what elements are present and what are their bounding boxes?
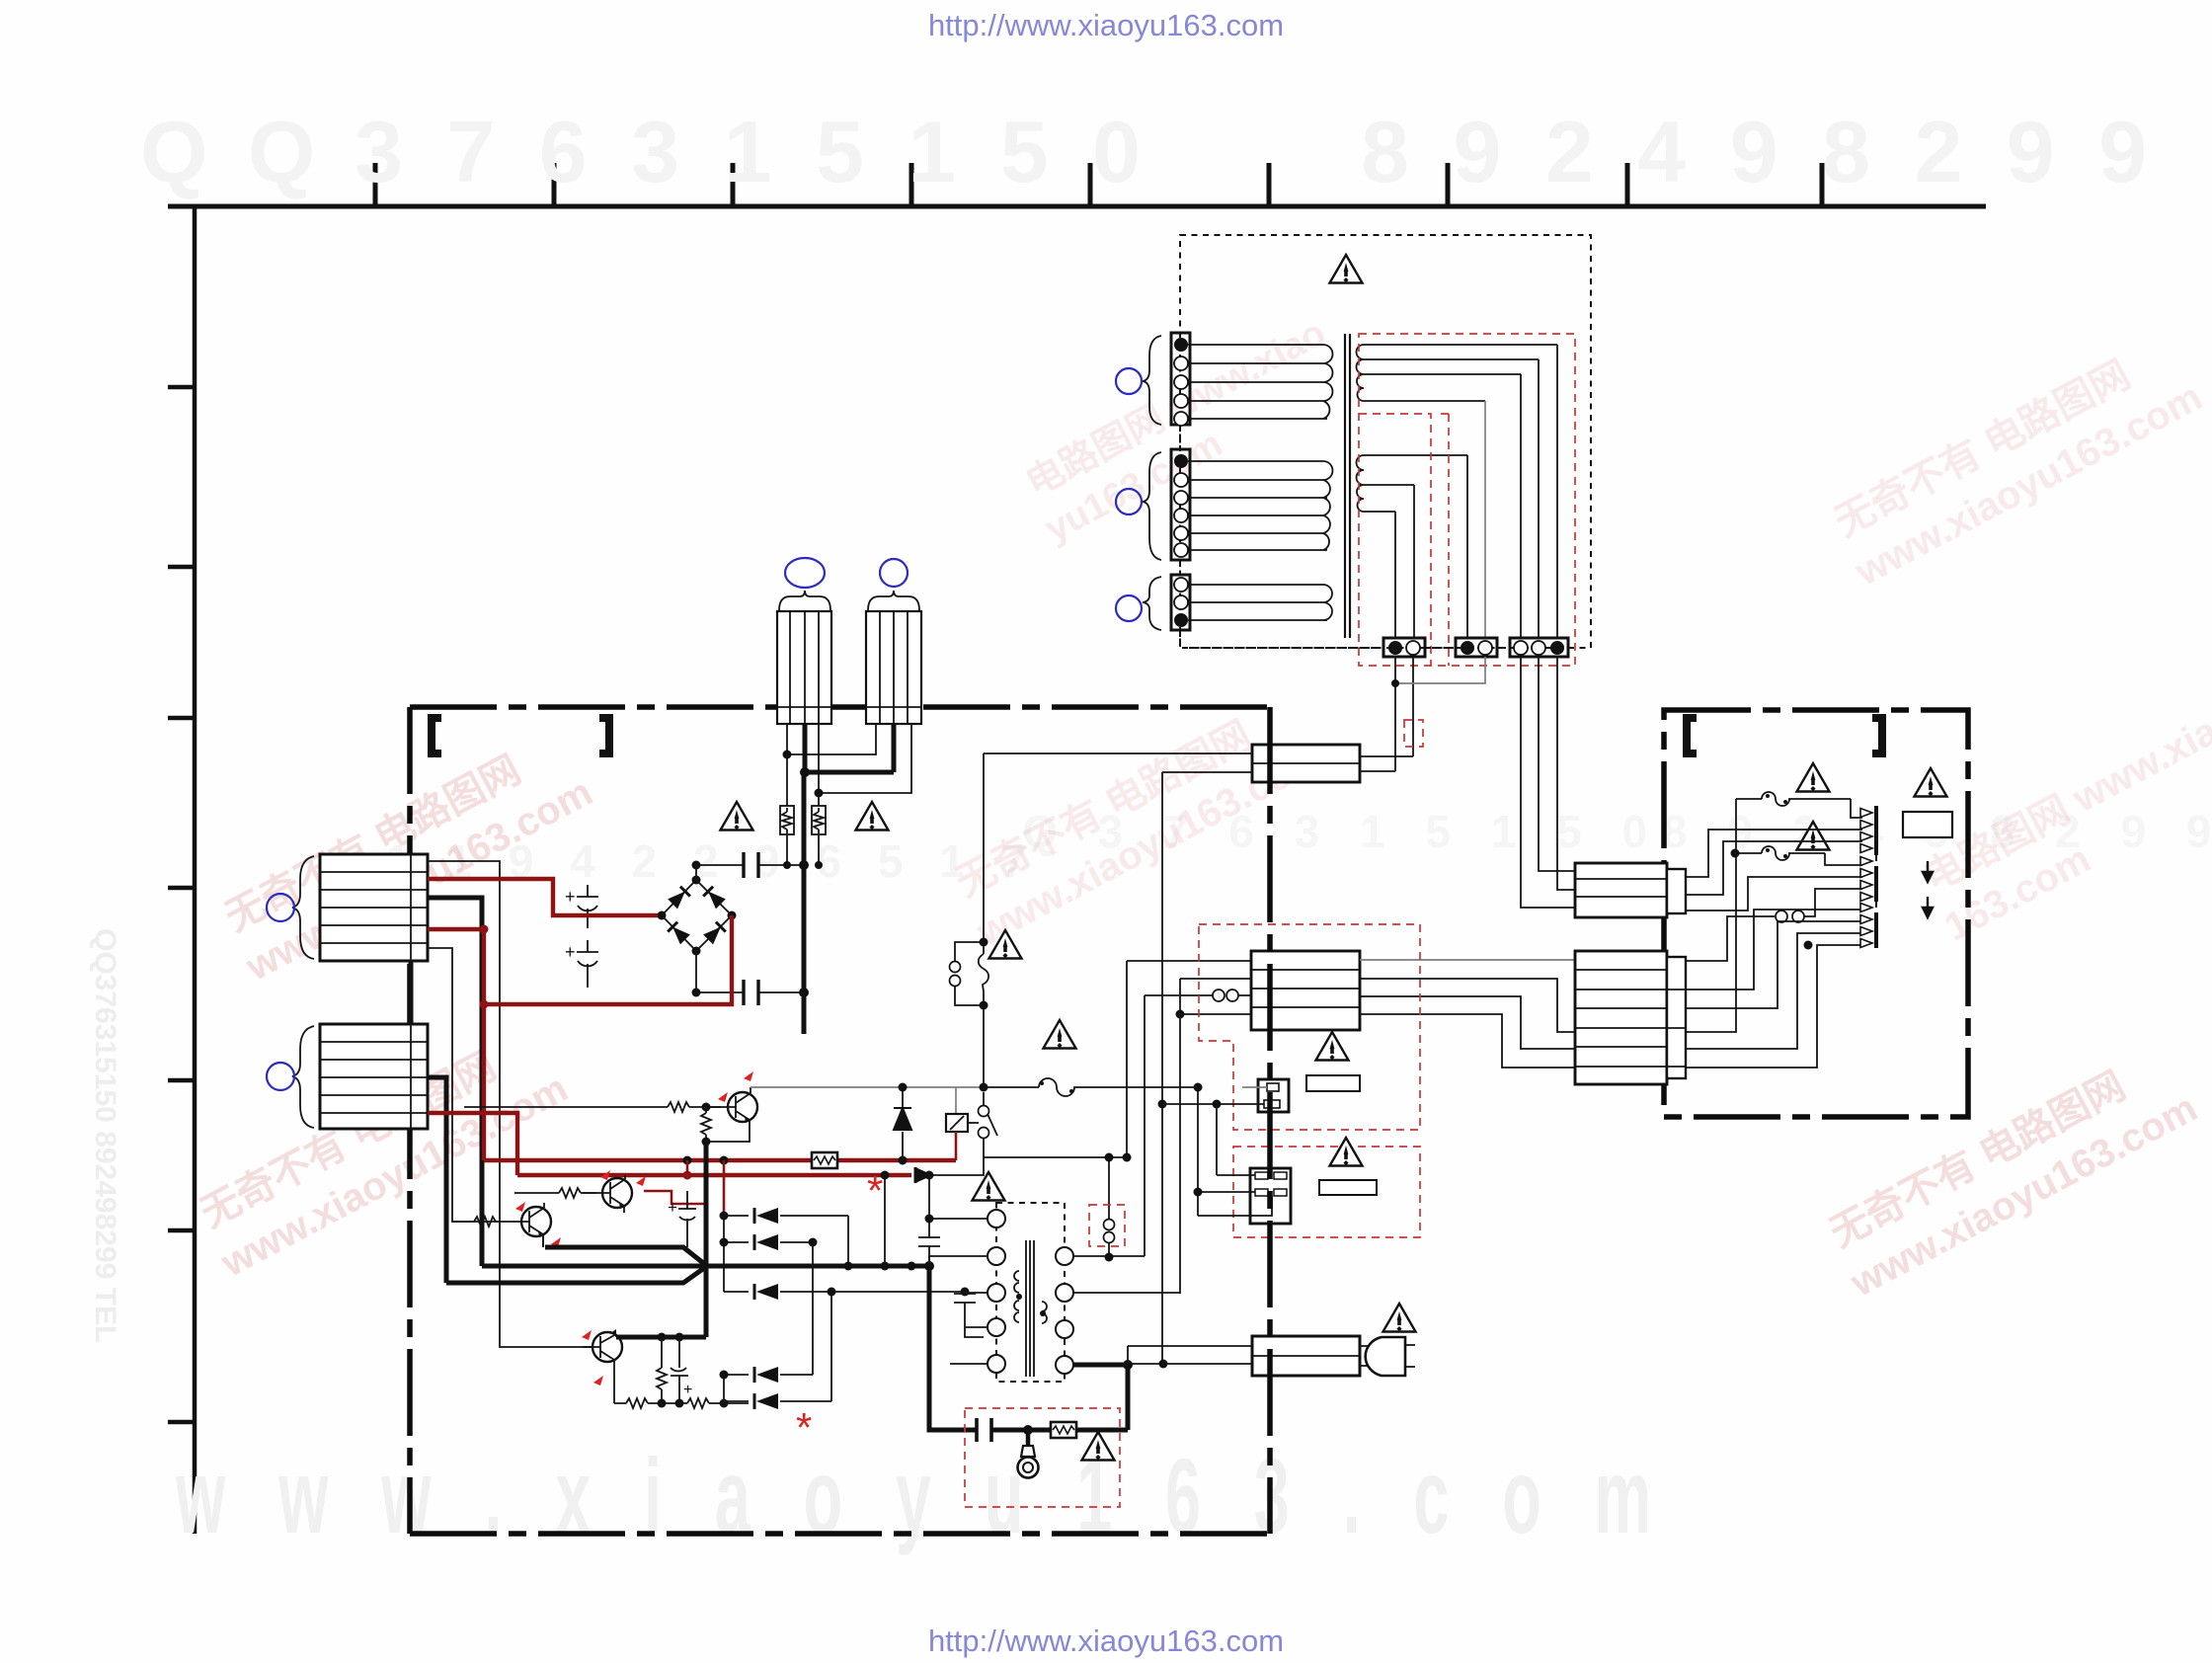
wire CN5 red row bbox=[428, 1113, 517, 1175]
red link verticals bbox=[686, 1160, 689, 1175]
red dashed service zone A bbox=[1199, 924, 1420, 1130]
arrow cluster 3 bbox=[1860, 904, 1872, 948]
diode left bus bbox=[723, 1216, 725, 1403]
wires below P1 bbox=[1395, 657, 1413, 771]
center vertical wire V1159 bbox=[1144, 995, 1145, 1256]
bottom ground loop bbox=[929, 1266, 1128, 1430]
dotted enclosure box bbox=[1180, 235, 1591, 648]
bypass contact branch bbox=[955, 942, 984, 1005]
resistor R4 bbox=[818, 793, 820, 806]
primary coil humps group1 bbox=[1323, 345, 1333, 419]
svg-text:+: + bbox=[683, 1382, 692, 1398]
resistor R5 vertical bbox=[701, 1107, 711, 1142]
capacitor C1 line bbox=[696, 864, 804, 866]
rectifier diode D8 bbox=[749, 1400, 831, 1402]
dashed feed line through connectors bbox=[1179, 241, 1181, 647]
cable CN-D housing upper right bbox=[1575, 863, 1667, 917]
power switch S1 bbox=[979, 1106, 989, 1117]
connector block CN5 bbox=[320, 1024, 428, 1129]
wire F1 to arrows bbox=[1851, 799, 1862, 818]
right unit dash-dot border bbox=[1664, 710, 1968, 1117]
rail into cable B row2 bbox=[1180, 978, 1251, 980]
connector block CN4 bbox=[320, 854, 428, 961]
red rail 1 bbox=[484, 1158, 956, 1162]
cable D mating half bbox=[1667, 869, 1686, 913]
wire V896 bbox=[884, 1175, 886, 1266]
bracket labels bbox=[1687, 718, 1697, 753]
capacitor C2 line bbox=[696, 991, 804, 993]
wire to J1 pin1 bbox=[1242, 1086, 1267, 1088]
blue ring CN1 bbox=[1116, 368, 1142, 394]
secondary wires to verticals bbox=[1364, 345, 1557, 512]
pink watermark 3 (center) bbox=[944, 688, 1330, 955]
wire fuse feed vertical bbox=[1686, 799, 1736, 1032]
red arrows Q4 bbox=[582, 1330, 592, 1340]
svg-text:3 7 6 3 1 5 1 5 0: 3 7 6 3 1 5 1 5 0 bbox=[355, 103, 1150, 200]
heater link wires bbox=[787, 724, 876, 754]
warning triangle near R3 bbox=[721, 802, 753, 831]
pink watermark 7 (right lower) bbox=[1818, 1039, 2204, 1306]
rail with service contacts into cable B row3 bbox=[1145, 994, 1251, 996]
fuse F2 bbox=[1735, 846, 1825, 860]
down arrow 2 bbox=[1923, 897, 1933, 917]
red arrows Q1 bbox=[744, 1071, 753, 1081]
electrolytic C3 bbox=[678, 1191, 696, 1247]
wire cable A right row1 bbox=[1360, 755, 1413, 757]
lower connector wires to arrows bbox=[1686, 910, 1862, 990]
warning triangle bbox=[1330, 255, 1363, 283]
wire F2 to arrows bbox=[1825, 853, 1862, 865]
rectifier diode D6 bbox=[724, 1291, 965, 1293]
chevron bus converge bbox=[446, 1247, 707, 1283]
secondary vertical drops bbox=[1521, 345, 1557, 638]
bracket labels bbox=[432, 718, 441, 753]
pink watermark 2 (left lower) bbox=[189, 1019, 575, 1286]
red dashed box around K1 bbox=[1089, 1205, 1125, 1246]
wire to J1 pin2 bbox=[1162, 1103, 1264, 1105]
block link thick wire bbox=[409, 961, 414, 1024]
wire to J2 row2 bbox=[1198, 1191, 1255, 1193]
electrolytic C5 bbox=[671, 1337, 688, 1403]
bottom connector P1 bbox=[1383, 638, 1425, 657]
contact pair K1 bbox=[1108, 1157, 1110, 1257]
svg-text:http://www.xiaoyu163.com: http://www.xiaoyu163.com bbox=[928, 1623, 1284, 1658]
bottom connector P3 bbox=[1510, 638, 1568, 657]
wire CN4 row to Q3 base bbox=[428, 948, 498, 1222]
dashed link between clusters bbox=[1875, 855, 1877, 912]
lower return vertical bbox=[1127, 1346, 1129, 1364]
warning triangle zone A bbox=[1316, 1032, 1349, 1061]
red arrows Q2 bbox=[600, 1170, 610, 1180]
bottom connector P2 bbox=[1456, 638, 1497, 657]
base resistor R12 bbox=[514, 1188, 596, 1198]
label box zone A bbox=[1306, 1075, 1360, 1091]
transistor Q1 bbox=[706, 1087, 757, 1142]
center vertical wire V1177 bbox=[1161, 772, 1163, 1363]
transistor Q2 bbox=[583, 1175, 632, 1213]
thermal protector squiggle bbox=[979, 954, 988, 991]
bridge rectifier BR1 bbox=[658, 865, 737, 992]
blue ring CN3 bbox=[1116, 595, 1142, 621]
base resistor R11 bbox=[464, 1102, 721, 1112]
center vertical wire V1232 bbox=[1216, 1104, 1218, 1175]
wire CN4 red row to bridge bbox=[428, 879, 658, 915]
Q3 emitter tie bbox=[542, 1234, 544, 1247]
tube connector V2 bbox=[866, 559, 921, 724]
center vertical wire V1213 bbox=[1197, 1087, 1199, 1216]
transformer T1 core bbox=[1345, 334, 1350, 638]
red dashed ground zone bbox=[965, 1408, 1120, 1507]
wire CN4 row1 to Q4 base bbox=[428, 861, 593, 1347]
wire xfmr to AC cable row2 bbox=[1128, 1363, 1252, 1365]
cable B right wires to cable C bbox=[1360, 959, 1575, 961]
T2 right row1 bbox=[1072, 1255, 1145, 1257]
connector J2 bbox=[1198, 1168, 1291, 1224]
warning triangle AC area bbox=[989, 930, 1022, 959]
Q1 collector line bbox=[750, 1086, 984, 1088]
base resistor R13 bbox=[452, 1217, 514, 1227]
electrolytic C10 bbox=[577, 940, 598, 988]
left ruler line bbox=[193, 206, 197, 1534]
wire CN4 thick row to bus bbox=[428, 898, 482, 1266]
connector CN3 housing bbox=[1171, 575, 1190, 630]
red dashed service zone B bbox=[1233, 1147, 1420, 1237]
arrow cluster 1 bbox=[1860, 809, 1872, 853]
Q4 collector thick wire bbox=[616, 1335, 706, 1340]
label box zone B bbox=[1319, 1180, 1377, 1195]
pink watermark 5 (right top) bbox=[1823, 328, 2209, 594]
chassis ring terminal bbox=[1026, 1430, 1031, 1446]
cable CN-C housing right bbox=[1575, 951, 1667, 1084]
wire CN5 thick row to bus bbox=[428, 1077, 446, 1283]
top ruler ticks bbox=[375, 163, 1822, 206]
cable CN-A housing top bbox=[1252, 745, 1360, 782]
wire with inline contacts bbox=[1686, 889, 1862, 961]
transistor Q4 bbox=[583, 1329, 622, 1403]
boxed resistor R9 bbox=[1051, 1422, 1076, 1438]
pink watermark 6 (right middle) bbox=[1913, 676, 2212, 950]
resistor R6 bbox=[657, 1337, 667, 1403]
dotted box bottom edge through connectors bbox=[1189, 647, 1591, 649]
blue ring CN5 bbox=[267, 1063, 294, 1090]
blue ring CN4 bbox=[267, 894, 294, 921]
relay coil return red bbox=[955, 1132, 958, 1160]
down arrow 1 bbox=[1923, 861, 1933, 882]
AC cord cable housing bbox=[1252, 1336, 1360, 1376]
cable C mating half bbox=[1667, 957, 1686, 1078]
switched line to J-area bbox=[984, 1156, 1127, 1158]
rectifier diode D4 bbox=[724, 1215, 848, 1217]
warning triangle right bbox=[1915, 768, 1947, 797]
warning triangle plug bbox=[1383, 1304, 1416, 1332]
fuse F3 bbox=[984, 1078, 1198, 1096]
AC plug bbox=[1360, 1346, 1382, 1366]
connector J1 bbox=[1258, 1079, 1289, 1112]
pink watermark 4 (over transformer box) bbox=[1015, 312, 1356, 551]
warning triangle near fuse F2 bbox=[1797, 822, 1830, 850]
top ruler line bbox=[168, 204, 1986, 209]
wire to J2 row1 bbox=[1217, 1174, 1255, 1176]
connector CN2 housing bbox=[1171, 449, 1190, 560]
svg-text:+: + bbox=[565, 942, 576, 962]
warning triangle near R4 bbox=[856, 802, 889, 831]
fuse F1 bbox=[1736, 792, 1851, 806]
warning triangle zone B bbox=[1330, 1138, 1363, 1166]
T2 right row4 thick bbox=[1072, 1363, 1128, 1368]
red jog near Q2 bbox=[644, 1191, 705, 1204]
wire cable A row1 to AC line bbox=[984, 752, 1252, 754]
tiny red service box bbox=[1404, 720, 1423, 747]
T2 left stubs bbox=[929, 1219, 987, 1364]
brace CN3 bbox=[1143, 577, 1161, 630]
red arrows Q3 bbox=[515, 1202, 525, 1212]
brace CN4 bbox=[292, 856, 314, 959]
svg-text:*: * bbox=[796, 1404, 812, 1451]
diode D9 relay clamp bbox=[902, 1087, 904, 1160]
red rail 2 bbox=[517, 1173, 911, 1177]
wires below P3 to lower connectors bbox=[1521, 657, 1575, 908]
connector CN1 housing bbox=[1171, 333, 1190, 426]
main board dash-dot border bbox=[410, 707, 1270, 1534]
boxed resistor R10 on rail bbox=[812, 1152, 837, 1168]
thick emitter drop to bus tip bbox=[704, 1142, 709, 1337]
warning triangle near fuse F1 bbox=[1797, 763, 1830, 792]
transformer T1 primary winding wires bbox=[1188, 345, 1327, 419]
svg-text:w w w . x i a o y u 1 6 3 . c: w w w . x i a o y u 1 6 3 . c o m bbox=[175, 1436, 1669, 1555]
T1 secondary coils lower bbox=[1357, 455, 1364, 512]
capacitor C7 bbox=[954, 1292, 984, 1337]
wire CN4 red row2 bbox=[428, 927, 484, 931]
svg-text:+: + bbox=[565, 887, 576, 907]
red return riser bbox=[484, 915, 732, 1160]
thick HT wire tube1-tube2 bbox=[804, 724, 894, 1034]
tube connector V1 bbox=[777, 558, 831, 724]
switching transformer T2 bbox=[987, 1203, 1073, 1382]
brace CN2 bbox=[1143, 452, 1161, 560]
red dashed zone around secondaries bbox=[1359, 334, 1575, 666]
capacitor C6 bbox=[918, 1175, 940, 1266]
rail into cable B row1 bbox=[1127, 960, 1251, 962]
svg-text:QQ376315150 892498299 TEL: QQ376315150 892498299 TEL bbox=[89, 928, 121, 1343]
brace CN1 bbox=[1143, 336, 1161, 425]
gray link P1-P2 bbox=[1395, 657, 1485, 683]
warning triangle ground zone bbox=[1082, 1432, 1115, 1461]
diode right links bbox=[813, 1216, 848, 1401]
AC main feed vertical bbox=[983, 753, 985, 1087]
T2 right row2 bbox=[1072, 1292, 1180, 1294]
wire xfmr to AC cable row1 bbox=[1128, 1345, 1252, 1347]
relay RY1 bbox=[955, 1087, 957, 1114]
svg-text:+: + bbox=[668, 1198, 677, 1217]
rectifier diode D7 bbox=[724, 1374, 813, 1376]
electrolytic C9 bbox=[577, 885, 598, 928]
center vertical wire V1141 bbox=[1126, 961, 1128, 1157]
rail into cable B row4 bbox=[1180, 1013, 1251, 1015]
T1 secondary coils upper bbox=[1357, 345, 1364, 401]
center vertical wire V1195 bbox=[1179, 979, 1181, 1294]
pink watermark 1 (left upper) bbox=[213, 723, 599, 990]
brace CN5 bbox=[292, 1026, 314, 1128]
rectifier diode D5b bbox=[724, 1241, 813, 1243]
svg-text:Q Q: Q Q bbox=[140, 103, 323, 200]
emitter return wire with resistors bbox=[614, 1398, 749, 1408]
blue ring CN2 bbox=[1116, 489, 1142, 515]
left ruler ticks bbox=[168, 387, 195, 1422]
wire cable A row2 bbox=[1162, 771, 1252, 773]
transistor Q3 bbox=[513, 1203, 551, 1247]
diode D5 on rail2 end bbox=[915, 1167, 933, 1183]
svg-text:8 9 2 4 9 8 2 9 9: 8 9 2 4 9 8 2 9 9 bbox=[1361, 103, 2157, 200]
wire cable A right row2 bbox=[1360, 770, 1395, 772]
resistor R3 bbox=[786, 754, 788, 806]
label box bbox=[1903, 812, 1952, 837]
cable CN-B housing middle bbox=[1251, 951, 1360, 1030]
warning triangle fuse area bbox=[1044, 1020, 1076, 1049]
wires connector rows to arrows bbox=[1686, 830, 1862, 877]
svg-text:http://www.xiaoyu163.com: http://www.xiaoyu163.com bbox=[928, 8, 1284, 42]
warning triangle above T2 bbox=[973, 1172, 1005, 1201]
arrow cluster 2 bbox=[1860, 857, 1872, 902]
